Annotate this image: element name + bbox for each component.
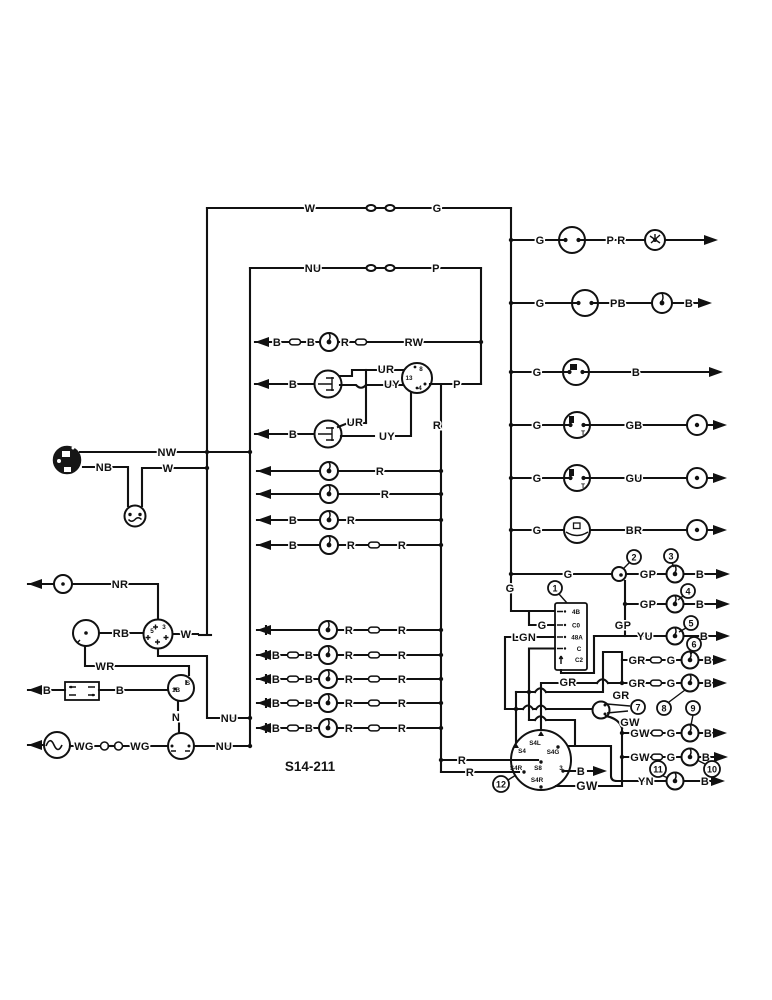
svg-text:B: B xyxy=(289,540,297,552)
svg-text:B: B xyxy=(696,569,704,581)
svg-text:B: B xyxy=(577,766,585,778)
svg-text:T: T xyxy=(581,483,585,490)
svg-text:C: C xyxy=(577,646,582,653)
svg-text:G: G xyxy=(533,473,542,485)
svg-text:B: B xyxy=(305,650,313,662)
svg-text:10: 10 xyxy=(707,765,717,775)
svg-text:B: B xyxy=(272,674,280,686)
svg-text:6: 6 xyxy=(691,640,696,650)
svg-text:G: G xyxy=(533,367,542,379)
svg-text:B: B xyxy=(272,723,280,735)
svg-text:GP: GP xyxy=(640,599,657,611)
svg-text:G: G xyxy=(667,678,676,690)
svg-text:GB: GB xyxy=(625,420,642,432)
svg-text:B: B xyxy=(273,337,281,349)
svg-text:B: B xyxy=(307,337,315,349)
svg-text:R: R xyxy=(345,723,353,735)
svg-text:GW: GW xyxy=(576,779,598,793)
svg-text:S4G: S4G xyxy=(547,749,560,756)
svg-text:GP: GP xyxy=(640,569,657,581)
svg-text:NU: NU xyxy=(305,263,322,275)
svg-text:R: R xyxy=(458,755,466,767)
svg-text:YU: YU xyxy=(637,631,653,643)
svg-text:P R: P R xyxy=(606,235,625,247)
svg-text:S4R: S4R xyxy=(531,777,544,784)
svg-text:2: 2 xyxy=(631,553,636,563)
svg-text:B: B xyxy=(632,367,640,379)
svg-text:R: R xyxy=(347,515,355,527)
svg-text:W: W xyxy=(305,203,316,215)
svg-text:B: B xyxy=(305,674,313,686)
svg-text:RB: RB xyxy=(113,628,130,640)
svg-text:B: B xyxy=(289,515,297,527)
svg-text:UY: UY xyxy=(379,431,395,443)
svg-text:W: W xyxy=(181,629,192,641)
svg-text:B: B xyxy=(289,379,297,391)
svg-text:P: P xyxy=(453,379,461,391)
svg-text:NB: NB xyxy=(96,462,113,474)
svg-text:13: 13 xyxy=(405,375,413,382)
svg-text:R: R xyxy=(398,625,406,637)
svg-text:R: R xyxy=(381,489,389,501)
svg-text:G: G xyxy=(506,583,515,595)
svg-text:YN: YN xyxy=(638,776,654,788)
svg-text:G: G xyxy=(533,525,542,537)
svg-text:WG: WG xyxy=(130,741,150,753)
svg-text:NW: NW xyxy=(158,447,177,459)
svg-text:R: R xyxy=(398,723,406,735)
svg-text:LGN: LGN xyxy=(512,632,536,644)
svg-text:B: B xyxy=(701,776,709,788)
svg-text:GR: GR xyxy=(628,678,645,690)
svg-text:N: N xyxy=(172,712,180,724)
svg-text:R: R xyxy=(376,466,384,478)
svg-text:R: R xyxy=(398,540,406,552)
svg-text:9: 9 xyxy=(690,704,695,714)
svg-text:P: P xyxy=(432,263,440,275)
svg-text:48A: 48A xyxy=(571,635,583,642)
svg-text:G: G xyxy=(538,620,547,632)
svg-text:UR: UR xyxy=(378,364,395,376)
svg-text:B: B xyxy=(305,698,313,710)
svg-text:R: R xyxy=(433,420,441,432)
svg-text:11: 11 xyxy=(653,765,663,775)
svg-text:GW: GW xyxy=(630,752,650,764)
svg-text:R: R xyxy=(345,650,353,662)
svg-text:B: B xyxy=(305,723,313,735)
svg-text:8: 8 xyxy=(419,366,423,373)
svg-text:R: R xyxy=(466,767,474,779)
svg-text:4: 4 xyxy=(685,587,690,597)
svg-text:B: B xyxy=(685,298,693,310)
svg-text:GW: GW xyxy=(630,728,650,740)
svg-text:12: 12 xyxy=(496,780,506,790)
svg-text:G: G xyxy=(533,420,542,432)
svg-text:GR: GR xyxy=(559,677,576,689)
svg-text:S4L: S4L xyxy=(529,740,541,747)
svg-text:G: G xyxy=(667,752,676,764)
svg-text:4B: 4B xyxy=(572,609,581,616)
svg-text:S8: S8 xyxy=(534,765,542,772)
svg-text:R: R xyxy=(398,650,406,662)
svg-text:R: R xyxy=(398,698,406,710)
svg-text:WG: WG xyxy=(74,741,94,753)
svg-text:W: W xyxy=(163,463,174,475)
svg-text:G: G xyxy=(536,298,545,310)
svg-text:R: R xyxy=(345,698,353,710)
svg-text:G: G xyxy=(667,728,676,740)
svg-text:7: 7 xyxy=(635,703,640,713)
svg-text:NR: NR xyxy=(112,579,129,591)
svg-text:B: B xyxy=(704,678,712,690)
svg-text:NU: NU xyxy=(221,713,238,725)
svg-text:B: B xyxy=(704,728,712,740)
svg-text:5: 5 xyxy=(688,619,693,629)
svg-text:B: B xyxy=(704,655,712,667)
svg-text:S4: S4 xyxy=(518,748,526,755)
svg-text:R: R xyxy=(345,674,353,686)
svg-text:T: T xyxy=(581,430,585,437)
svg-text:B: B xyxy=(696,599,704,611)
svg-text:GW: GW xyxy=(620,717,640,729)
svg-text:1B: 1B xyxy=(172,687,181,694)
svg-text:G: G xyxy=(433,203,442,215)
svg-text:GP: GP xyxy=(615,620,632,632)
svg-text:R: R xyxy=(345,625,353,637)
svg-text:B: B xyxy=(272,698,280,710)
svg-text:3: 3 xyxy=(162,624,166,631)
svg-text:G: G xyxy=(564,569,573,581)
svg-text:R: R xyxy=(347,540,355,552)
svg-text:B: B xyxy=(116,685,124,697)
svg-text:1: 1 xyxy=(552,584,557,594)
svg-text:G: G xyxy=(667,655,676,667)
svg-text:4: 4 xyxy=(418,385,422,392)
svg-text:S14-211: S14-211 xyxy=(285,759,336,774)
svg-text:R: R xyxy=(398,674,406,686)
svg-text:5: 5 xyxy=(150,628,154,635)
svg-text:WR: WR xyxy=(96,661,115,673)
svg-text:GU: GU xyxy=(625,473,642,485)
svg-text:C0: C0 xyxy=(572,623,581,630)
svg-text:B: B xyxy=(289,429,297,441)
svg-text:G: G xyxy=(536,235,545,247)
svg-text:GR: GR xyxy=(612,690,629,702)
svg-text:8: 8 xyxy=(661,704,666,714)
svg-text:GR: GR xyxy=(628,655,645,667)
svg-text:RW: RW xyxy=(405,337,424,349)
svg-text:C2: C2 xyxy=(575,657,584,664)
svg-text:3: 3 xyxy=(668,552,673,562)
svg-text:UR: UR xyxy=(347,417,364,429)
svg-text:PB: PB xyxy=(610,298,626,310)
svg-text:B: B xyxy=(43,685,51,697)
svg-text:BR: BR xyxy=(626,525,643,537)
svg-text:R: R xyxy=(341,337,349,349)
svg-text:NU: NU xyxy=(216,741,233,753)
svg-text:UY: UY xyxy=(384,379,400,391)
svg-text:B: B xyxy=(272,650,280,662)
